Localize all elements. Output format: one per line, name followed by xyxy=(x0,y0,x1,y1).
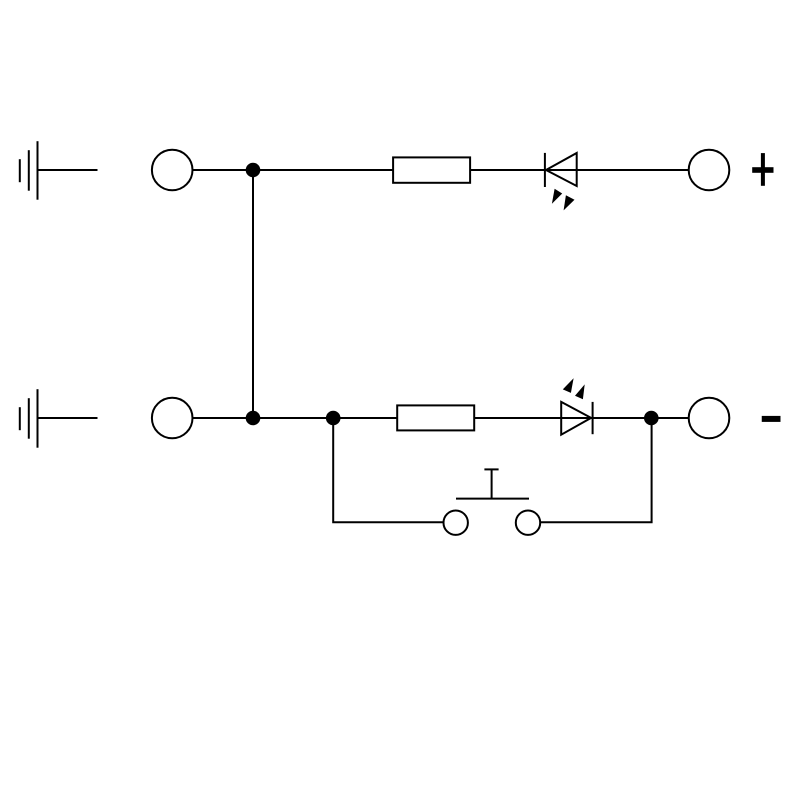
ground (top left) xyxy=(20,141,98,200)
terminal top right xyxy=(689,150,730,191)
ground (bottom left) xyxy=(20,389,98,448)
LED D2 xyxy=(561,378,592,435)
wire bottom rail xyxy=(193,417,689,419)
node junction top xyxy=(246,163,261,178)
wire button branch left xyxy=(333,418,443,522)
wire vertical between rails xyxy=(252,170,254,418)
minus label xyxy=(762,416,781,422)
wire button branch right xyxy=(540,418,651,522)
LED D1 xyxy=(545,153,577,211)
resistor R2 xyxy=(397,405,474,430)
terminal bottom right xyxy=(689,398,730,439)
plus label xyxy=(752,153,773,186)
node junction bottom a xyxy=(246,411,261,426)
node junction bottom c xyxy=(644,411,659,426)
terminal bottom left xyxy=(152,398,193,439)
node junction bottom b xyxy=(326,411,341,426)
terminal top left xyxy=(152,150,193,191)
resistor R1 xyxy=(393,157,470,182)
wire top rail xyxy=(193,169,689,171)
pushbutton S1 xyxy=(444,469,541,535)
